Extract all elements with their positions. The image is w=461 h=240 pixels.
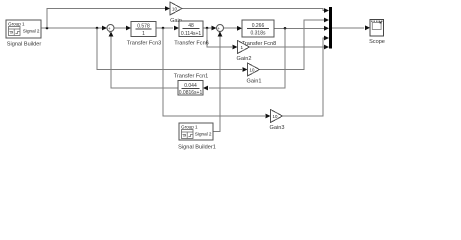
svg-text:Scope: Scope	[369, 39, 385, 45]
wire: junction down and right to Gain1 input	[97, 28, 242, 70]
wire: Signal Builder output to Sum1	[41, 27, 103, 29]
node: junction after Transfer Fcn3 feeding Gain3	[162, 27, 165, 30]
wire: Sum1 output to Transfer Fcn3	[114, 27, 126, 29]
gain block: Gain2	[237, 41, 252, 63]
arrowhead into Mux input 1	[324, 8, 329, 13]
wire: Gain2 output to Mux input 5	[250, 46, 325, 48]
node: junction on reference wire feeding Gain1	[96, 27, 99, 30]
wire: Transfer Fcn6 output to Sum2	[203, 27, 212, 29]
node: junction after Transfer Fcn8 feeding feedback	[284, 27, 287, 30]
arrowhead up into Sum1 bottom	[109, 32, 114, 37]
arrowhead into Sum2 left	[212, 26, 217, 31]
svg-text:1: 1	[241, 45, 244, 50]
wire: Sum2 output to Transfer Fcn8	[224, 27, 238, 29]
svg-text:10: 10	[250, 68, 255, 73]
arrowhead into Gain input	[165, 6, 170, 11]
wire: Gain1 output up to Mux input 2	[260, 20, 326, 70]
arrowhead into Mux input 3	[324, 26, 329, 31]
gain block: Gain (top)	[170, 2, 182, 24]
wire: junction up and right to Gain input	[47, 9, 165, 29]
svg-text:10: 10	[172, 7, 177, 12]
wire: Gain3 output up to Mux input 4	[283, 38, 325, 116]
wire: Signal Builder1 output up to Sum2 bottom input	[213, 35, 220, 132]
sum S1	[107, 25, 114, 36]
mux: Mux bar	[329, 7, 332, 49]
arrowhead up into Sum2 bottom	[218, 32, 223, 37]
svg-text:Signal 2: Signal 2	[195, 132, 212, 137]
svg-text:Transfer Fcn3: Transfer Fcn3	[127, 41, 162, 47]
wire: junction down and right to Gain2 input	[207, 28, 232, 47]
arrowhead into Transfer Fcn8	[237, 26, 242, 31]
wire: Mux output to Scope	[332, 27, 364, 29]
arrowhead into Transfer Fcn6	[174, 26, 179, 31]
svg-text:Signal Builder: Signal Builder	[7, 42, 42, 48]
svg-text:0.318s: 0.318s	[250, 31, 266, 37]
arrowhead into Scope	[365, 25, 370, 30]
arrowhead into Sum1 left	[102, 26, 107, 31]
block: Transfer Fcn6	[174, 21, 209, 47]
block: Signal Builder	[6, 20, 41, 48]
svg-text:Group 1: Group 1	[8, 22, 25, 27]
gain block: Gain3	[270, 110, 285, 132]
block: Scope	[369, 20, 385, 46]
block: Transfer Fcn8	[242, 20, 277, 47]
svg-text:0.114s+1: 0.114s+1	[181, 31, 202, 37]
wire: Transfer Fcn3 output to Transfer Fcn6	[156, 27, 173, 29]
svg-text:Gain1: Gain1	[247, 79, 262, 85]
arrowhead into Mux input 2	[324, 18, 329, 23]
arrowhead into Mux input 5	[324, 45, 329, 50]
svg-text:1: 1	[142, 31, 145, 37]
arrowhead into Transfer Fcn3	[126, 26, 131, 31]
svg-text:Signal 2: Signal 2	[23, 29, 40, 34]
arrowhead into Transfer Fcn1 right side	[203, 86, 208, 91]
block: Transfer Fcn1	[174, 74, 209, 97]
svg-text:Transfer Fcn6: Transfer Fcn6	[174, 41, 209, 47]
sum S2	[217, 25, 224, 35]
svg-text:0.266: 0.266	[252, 23, 265, 29]
svg-text:0.0816s+1: 0.0816s+1	[179, 90, 203, 96]
svg-text:Group 1: Group 1	[181, 125, 198, 130]
arrowhead into Gain1 input	[243, 67, 248, 72]
node: junction after Transfer Fcn6 feeding Gain2	[206, 27, 209, 30]
wire: Gain output to Mux input 1	[182, 9, 325, 11]
wire: Transfer Fcn1 output left and up to Sum1 minus input	[111, 35, 178, 88]
wire: Transfer Fcn8 output to Mux input 3	[274, 27, 325, 29]
block: Transfer Fcn3	[127, 22, 162, 47]
wire: feedback down and left into Transfer Fcn1	[209, 28, 285, 88]
svg-text:Gain3: Gain3	[270, 125, 285, 131]
svg-text:10: 10	[273, 114, 278, 119]
arrowhead into Gain2 input	[233, 45, 238, 50]
svg-text:Signal Builder1: Signal Builder1	[178, 145, 216, 151]
arrowhead into Mux input 4	[324, 36, 329, 41]
gain block: Gain1	[247, 63, 262, 85]
node: junction on reference wire feeding Gain	[46, 27, 49, 30]
svg-text:Transfer Fcn1: Transfer Fcn1	[174, 74, 209, 80]
wire: junction down and right to Gain3 input	[163, 28, 265, 116]
svg-text:Gain2: Gain2	[237, 56, 252, 62]
svg-text:+: +	[218, 30, 221, 35]
arrowhead into Gain3 input	[266, 114, 271, 119]
block: Signal Builder1	[178, 123, 216, 151]
